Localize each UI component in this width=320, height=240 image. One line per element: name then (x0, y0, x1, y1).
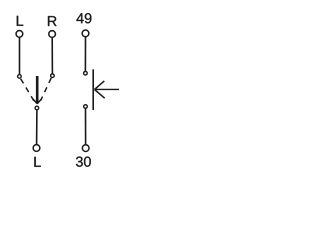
wire from lower fixed contact to terminal 30 (85, 109, 87, 145)
wire from terminal 49 to upper fixed contact (84, 37, 86, 71)
common pole node circle (35, 106, 39, 110)
actuator arrowhead right barb (37, 99, 41, 103)
terminal R circle (49, 31, 56, 38)
terminal 30 circle (82, 145, 89, 152)
dashed throw position left (L contact to common pole) (21, 79, 35, 102)
label 30 (bottom right terminal) (76, 157, 91, 167)
wire from common pole to bottom terminal L (36, 110, 38, 144)
right contact circle (51, 74, 55, 78)
bottom terminal L circle (33, 145, 40, 152)
terminal 49 circle (82, 30, 89, 37)
actuator arrow shaft (thick, pointing down at pole) (36, 76, 39, 103)
dashed throw position right (R contact to common pole) (41, 78, 52, 101)
label R (top middle terminal) (48, 16, 57, 26)
lower fixed contact circle (30 side) (84, 105, 88, 109)
upper fixed contact circle (49 side) (84, 71, 88, 75)
label L (top left terminal) (17, 16, 23, 26)
left contact circle (18, 75, 22, 79)
label 49 (top right terminal) (76, 13, 91, 23)
wire from terminal R to right contact (51, 38, 53, 74)
actuation arrowhead upper barb (95, 81, 105, 90)
label L (bottom terminal) (34, 157, 40, 167)
actuator arrowhead left barb (33, 99, 37, 103)
wire from terminal L to left contact (19, 38, 21, 75)
movable contact bar (closed switch) (92, 69, 94, 110)
terminal L circle (16, 31, 23, 38)
actuation arrowhead lower barb (95, 90, 105, 99)
actuation arrow shaft (horizontal, pointing left at bar) (95, 88, 119, 90)
